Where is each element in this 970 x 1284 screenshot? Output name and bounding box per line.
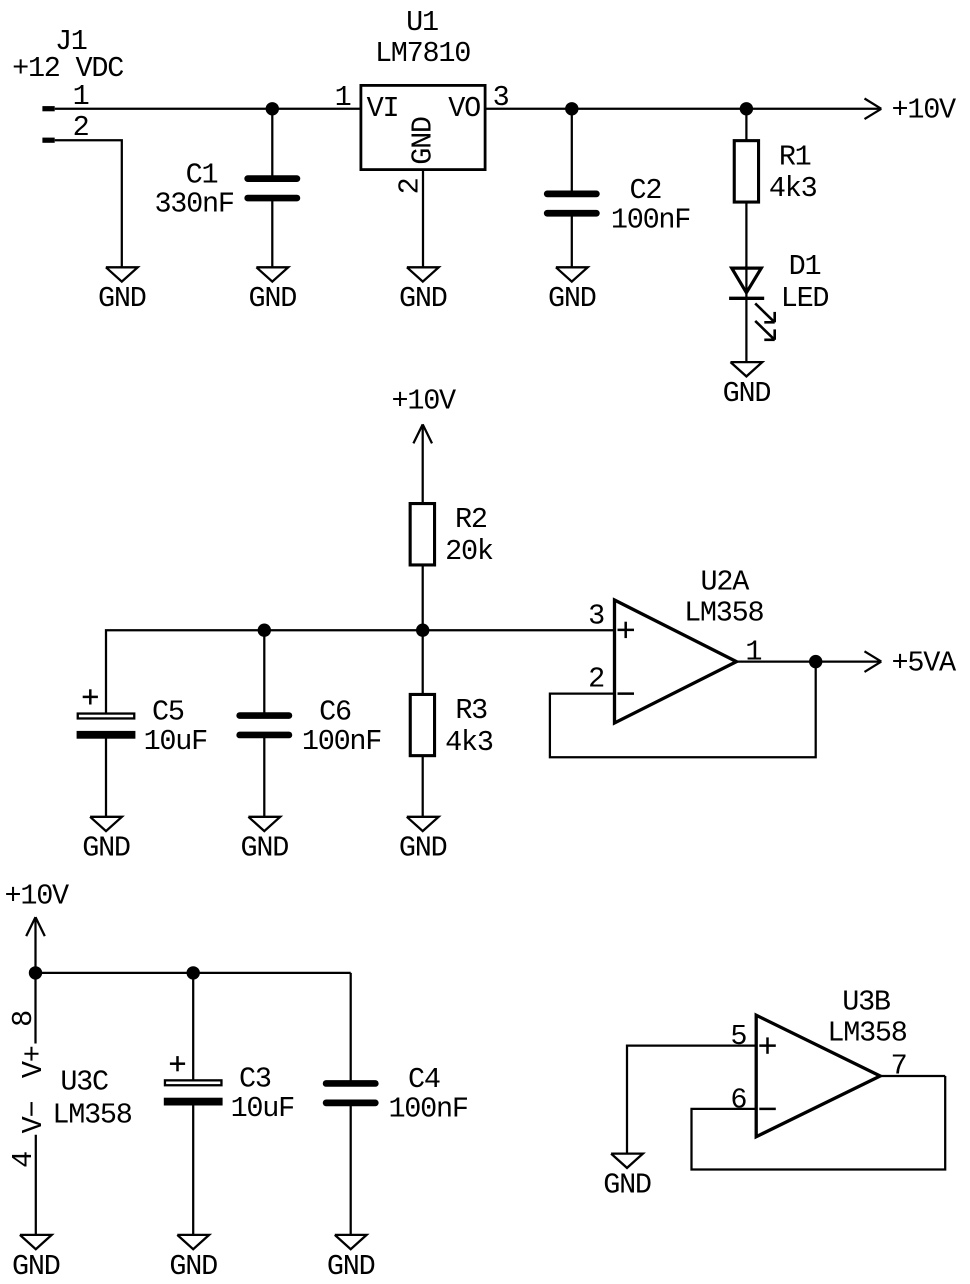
svg-text:LM358: LM358 xyxy=(827,1017,906,1050)
svg-text:6: 6 xyxy=(730,1083,746,1116)
resistor R3 xyxy=(410,630,493,816)
svg-text:10uF: 10uF xyxy=(231,1092,295,1125)
svg-text:GND: GND xyxy=(169,1250,217,1283)
junction xyxy=(740,102,753,115)
svg-text:C1: C1 xyxy=(186,158,218,191)
svg-text:+10V: +10V xyxy=(4,879,69,912)
svg-text:2: 2 xyxy=(394,178,427,194)
svg-text:GND: GND xyxy=(327,1250,375,1283)
svg-text:VI: VI xyxy=(367,92,399,125)
ground xyxy=(603,1154,651,1202)
capacitor C4 xyxy=(326,973,468,1235)
svg-text:+10V: +10V xyxy=(391,385,456,418)
svg-text:LM358: LM358 xyxy=(684,596,763,629)
junction xyxy=(565,102,578,115)
svg-text:C5: C5 xyxy=(152,696,184,729)
svg-text:+5VA: +5VA xyxy=(892,646,958,679)
ground xyxy=(399,817,447,865)
resistor R2 xyxy=(410,503,493,568)
svg-text:+10V: +10V xyxy=(892,94,957,127)
op-amp U3C power unit xyxy=(7,1011,132,1235)
ground xyxy=(12,1235,60,1283)
wire U1 VO to +10V xyxy=(487,108,882,110)
wire +10V to R2 xyxy=(422,424,424,502)
junction xyxy=(258,624,271,637)
svg-text:VO: VO xyxy=(448,92,480,125)
ground xyxy=(169,1235,217,1283)
wire U3B output xyxy=(880,1075,945,1077)
wire J1 pin1 to U1 VI xyxy=(55,108,360,110)
svg-text:100nF: 100nF xyxy=(302,725,381,758)
svg-text:LED: LED xyxy=(781,282,829,315)
capacitor C1 xyxy=(154,109,296,267)
svg-text:+12 VDC: +12 VDC xyxy=(12,52,123,85)
wire node rail xyxy=(106,630,615,713)
svg-text:8: 8 xyxy=(7,1011,40,1027)
svg-text:4k3: 4k3 xyxy=(445,726,493,759)
ground xyxy=(399,267,447,315)
op-amp U2A xyxy=(588,565,763,723)
svg-text:U2A: U2A xyxy=(701,565,751,598)
svg-text:C2: C2 xyxy=(630,174,662,207)
junction xyxy=(809,655,822,668)
svg-text:2: 2 xyxy=(588,663,604,696)
wire U2A output xyxy=(737,660,882,662)
ground xyxy=(327,1235,375,1283)
svg-text:R1: R1 xyxy=(779,140,811,173)
svg-text:GND: GND xyxy=(399,832,447,865)
wire +10V to U3C V+ xyxy=(34,917,36,1043)
power +10V xyxy=(391,385,456,444)
wire U1 GND pin to ground xyxy=(422,171,424,267)
svg-text:GND: GND xyxy=(12,1250,60,1283)
svg-text:C4: C4 xyxy=(408,1063,440,1096)
svg-text:V−: V− xyxy=(17,1102,50,1134)
capacitor C5 xyxy=(77,689,208,816)
svg-text:100nF: 100nF xyxy=(388,1093,467,1126)
svg-text:3: 3 xyxy=(588,600,604,633)
svg-text:GND: GND xyxy=(82,832,130,865)
capacitor C3 xyxy=(164,973,294,1235)
svg-text:C6: C6 xyxy=(319,696,351,729)
svg-text:V+: V+ xyxy=(17,1046,50,1078)
power +5VA xyxy=(865,646,958,679)
svg-text:10uF: 10uF xyxy=(144,725,208,758)
svg-text:U1: U1 xyxy=(406,6,438,39)
svg-text:1: 1 xyxy=(335,81,351,114)
svg-text:4k3: 4k3 xyxy=(769,172,817,205)
svg-text:R3: R3 xyxy=(455,694,487,727)
capacitor C6 xyxy=(240,630,382,816)
LED D1 xyxy=(729,250,828,340)
wire D1 cathode to ground xyxy=(745,298,747,362)
ground xyxy=(723,362,771,410)
resistor R1 xyxy=(734,109,816,267)
wire R2 to node xyxy=(422,566,424,630)
wire U2A feedback xyxy=(550,662,816,758)
junction xyxy=(266,102,279,115)
svg-text:R2: R2 xyxy=(455,503,487,536)
op-amp U3B xyxy=(730,986,906,1137)
svg-text:20k: 20k xyxy=(445,535,493,568)
svg-text:GND: GND xyxy=(249,282,297,315)
svg-text:C3: C3 xyxy=(239,1063,271,1096)
svg-text:GND: GND xyxy=(399,282,447,315)
wire U3B +input xyxy=(627,1046,756,1154)
junction xyxy=(416,624,429,637)
svg-text:GND: GND xyxy=(548,282,596,315)
svg-text:GND: GND xyxy=(98,282,146,315)
power +10V xyxy=(865,94,957,127)
connector J1 xyxy=(12,25,123,144)
wire J1 pin2 to ground xyxy=(55,140,122,267)
svg-text:GND: GND xyxy=(241,832,289,865)
ground xyxy=(82,817,130,865)
junction xyxy=(29,966,42,979)
ground xyxy=(241,817,289,865)
wire power rail xyxy=(36,972,351,974)
wire U3B feedback xyxy=(692,1076,946,1170)
regulator U1 xyxy=(335,6,509,194)
svg-text:LM358: LM358 xyxy=(52,1099,131,1132)
svg-text:U3B: U3B xyxy=(842,986,891,1019)
junction xyxy=(187,966,200,979)
svg-text:1: 1 xyxy=(745,635,761,668)
svg-text:U3C: U3C xyxy=(60,1066,108,1099)
capacitor C2 xyxy=(547,109,690,267)
svg-text:LM7810: LM7810 xyxy=(375,37,470,70)
svg-text:330nF: 330nF xyxy=(154,188,233,221)
svg-text:GND: GND xyxy=(723,377,771,410)
ground xyxy=(98,267,146,315)
svg-text:100nF: 100nF xyxy=(611,203,690,236)
ground xyxy=(249,267,297,315)
svg-text:7: 7 xyxy=(891,1050,907,1083)
ground xyxy=(548,267,596,315)
svg-text:GND: GND xyxy=(407,117,440,165)
svg-text:5: 5 xyxy=(730,1020,746,1053)
svg-text:D1: D1 xyxy=(789,250,821,283)
svg-text:GND: GND xyxy=(603,1169,651,1202)
power +10V xyxy=(4,879,69,936)
svg-text:2: 2 xyxy=(73,111,89,144)
